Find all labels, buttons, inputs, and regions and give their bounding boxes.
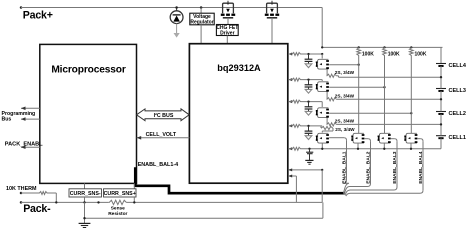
wire tap4 to balance resistor 4 bbox=[320, 126, 322, 128]
capacitor C5 on cell tap 5 with ground bbox=[305, 149, 313, 164]
svg-text:100K: 100K bbox=[362, 52, 374, 58]
svg-text:CURR_SNS-: CURR_SNS- bbox=[70, 191, 101, 197]
svg-text:CELL2: CELL2 bbox=[449, 111, 466, 117]
node stack VC2 bbox=[440, 98, 442, 100]
wire rail to ground bbox=[84, 202, 86, 223]
pin CURR_SNS+ label box bbox=[104, 189, 137, 197]
resistor 2S 3/4W balance resistor 4 bbox=[321, 126, 333, 132]
node therm terminal bbox=[20, 192, 23, 195]
battery CELL4 bbox=[436, 64, 446, 67]
wire tap2 to Q4 top bbox=[321, 80, 323, 81]
wire battery return riser bbox=[322, 202, 324, 218]
wire CELL4-CELL3 bbox=[440, 66, 442, 89]
svg-text:Pack+: Pack+ bbox=[23, 9, 53, 21]
resistor 2S 3/4W balance resistor 1 bbox=[327, 69, 442, 77]
wire Pack- rail with sense resistor bbox=[21, 200, 322, 204]
svg-text:2S, 3/4W: 2S, 3/4W bbox=[335, 119, 355, 124]
resistor 100K R2 bbox=[383, 46, 387, 133]
wire programming bus line 1 bbox=[21, 107, 40, 109]
svg-text:CELL1: CELL1 bbox=[449, 135, 466, 141]
svg-text:ENABL_BAL3: ENABL_BAL3 bbox=[392, 151, 398, 184]
resistor 100K R3 bbox=[409, 46, 413, 133]
node CURR_SNS- junction bbox=[83, 201, 85, 203]
node Pack- terminal bbox=[20, 201, 23, 204]
wire CELL_VOLT bbox=[137, 137, 190, 139]
wire VREG to bq29312A bbox=[200, 25, 202, 44]
capacitor C2 on cell tap 2 with ground bbox=[305, 80, 313, 94]
wire cell tap row 4 from bq29312A with series resistor bbox=[288, 124, 322, 127]
resistor 10K thermistor bbox=[21, 192, 56, 203]
node CURR_SNS+ junction bbox=[133, 201, 135, 203]
wire PACK- sense vertical bbox=[321, 170, 323, 203]
wire CURR_SNS- stub bbox=[84, 183, 86, 188]
wire PACK_ENABL bbox=[21, 146, 40, 148]
node ground return junction bbox=[83, 217, 85, 219]
wire ENABL_BAL2 vertical bbox=[370, 141, 372, 183]
svg-text:100K: 100K bbox=[388, 52, 400, 58]
transistor Q3 cell balance FET 1 bbox=[316, 59, 329, 69]
battery CELL3 bbox=[436, 89, 446, 92]
wire ENABL_BAL1 vertical bbox=[346, 140, 348, 180]
battery CELL2 bbox=[436, 112, 446, 115]
node tap1 junction bbox=[321, 53, 323, 55]
wire ENABL_BAL4 vertical bbox=[422, 141, 424, 190]
wire cell tap row 1 from bq29312A with series resistor bbox=[288, 53, 322, 56]
pin CURR_SNS- label box bbox=[69, 189, 102, 197]
wire battery return line bbox=[85, 217, 323, 219]
ground bbox=[79, 223, 91, 227]
node Q6 source on tap row 5 bbox=[321, 148, 323, 150]
svg-text:Microprocessor: Microprocessor bbox=[51, 64, 126, 75]
node rail drop at 100K bus bbox=[321, 46, 323, 48]
diode D1 circled zener clamp on Pack+ with ground arrow bbox=[170, 8, 183, 38]
transistor Q5 cell balance FET 3 bbox=[316, 108, 329, 118]
wire Q3 gate to 100K pull-up 1 bbox=[329, 64, 359, 66]
resistor 2S 3/4W balance resistor 3 bbox=[327, 118, 442, 126]
label Programming Bus bbox=[2, 111, 36, 123]
svg-text:2S, 3/4W: 2S, 3/4W bbox=[335, 94, 355, 99]
node stack VC1 bbox=[440, 123, 442, 125]
wire CHG FET driver to bq29312A bbox=[226, 36, 228, 44]
wire ENABL_BAL3 vertical bbox=[396, 141, 398, 187]
svg-text:Resistor: Resistor bbox=[108, 211, 127, 217]
bus I2C double arrow bbox=[137, 109, 190, 121]
capacitor C4 on cell tap 4 with ground bbox=[305, 126, 313, 140]
node PACK- sense junction bbox=[321, 169, 323, 171]
svg-text:bq29312A: bq29312A bbox=[217, 63, 261, 73]
wire Q9 gate to ENABL_BAL4 bbox=[418, 138, 421, 140]
pin programming bus arrow 2 bbox=[21, 117, 26, 121]
wire Q4 gate to 100K pull-up 2 bbox=[329, 86, 384, 88]
svg-text:Bus: Bus bbox=[2, 117, 12, 123]
wire Pack+ rail drop bbox=[321, 8, 323, 48]
wire 100K bus bbox=[322, 46, 442, 48]
block Voltage Regulator bbox=[190, 13, 214, 25]
wire CURR_SNS+ stub bbox=[133, 183, 135, 188]
svg-text:Pack-: Pack- bbox=[23, 203, 51, 215]
transistor Q7 auxiliary balance FET bbox=[351, 133, 364, 143]
resistor 100K R1 bbox=[357, 46, 361, 133]
svg-text:ENABL_BAL4: ENABL_BAL4 bbox=[418, 151, 424, 184]
resistor 2S 3/4W balance resistor 2 bbox=[327, 92, 442, 101]
wire Pack+ rail bbox=[21, 7, 322, 9]
wire tap1 to Q3 top bbox=[321, 54, 323, 59]
wire CELL2-CELL1 bbox=[440, 114, 442, 136]
wire Q9 to tap row 5 bbox=[410, 143, 412, 150]
svg-text:I²C BUS: I²C BUS bbox=[154, 113, 174, 119]
wire Q7 to tap row 5 bbox=[357, 143, 359, 150]
wire balance enable fan-out bbox=[343, 180, 423, 196]
transistor Q8 auxiliary balance FET bbox=[378, 133, 391, 143]
svg-text:ENABL_BAL1: ENABL_BAL1 bbox=[342, 151, 348, 184]
transistor Q4 cell balance FET 2 bbox=[316, 82, 329, 92]
svg-text:ENABL_BAL2: ENABL_BAL2 bbox=[366, 151, 372, 184]
svg-text:10K THERM: 10K THERM bbox=[6, 186, 37, 192]
transistor Q2 discharge FET on Pack+ rail bbox=[265, 1, 279, 18]
op-amp U1 Microprocessor block bbox=[40, 44, 137, 183]
wire CELL3-CELL2 bbox=[440, 91, 442, 112]
pin CELL_VOLT arrow bbox=[137, 136, 142, 140]
node rail to voltage regulator bbox=[200, 6, 203, 9]
wire bq pin PACK- sense bbox=[288, 169, 322, 171]
op-amp U2 bq29312A block bbox=[189, 44, 287, 184]
wire Q6 gate to ENABL_BAL1 bbox=[329, 137, 344, 139]
wire cell tap row 5 from bq29312A with series resistor bbox=[288, 147, 441, 150]
capacitor C1 on cell tap 1 with ground bbox=[305, 54, 313, 68]
wire Q7 gate to ENABL_BAL2 bbox=[365, 138, 369, 140]
wire CURR_SNS- to rail bbox=[84, 197, 86, 202]
wire Q1 gate to CHG FET driver bbox=[227, 18, 229, 25]
svg-text:2S, 3/4W: 2S, 3/4W bbox=[335, 70, 355, 75]
wire Q2 gate to bq29312A bbox=[271, 18, 273, 44]
svg-text:CELL4: CELL4 bbox=[449, 63, 467, 69]
svg-text:Sense: Sense bbox=[111, 206, 125, 212]
pin PACK_ENABL arrow bbox=[21, 145, 26, 149]
wire CURR_SNS+ to rail bbox=[133, 197, 135, 202]
wire Q8 to tap row 5 bbox=[383, 143, 385, 150]
transistor Q9 auxiliary balance FET bbox=[404, 133, 417, 143]
svg-text:CELL3: CELL3 bbox=[449, 88, 466, 94]
node Pack+ terminal bbox=[20, 6, 23, 9]
node rail to D1 bbox=[175, 6, 178, 9]
capacitor C3 on cell tap 3 with ground bbox=[305, 102, 313, 116]
svg-text:CURR_SNS+: CURR_SNS+ bbox=[104, 191, 136, 197]
wire Q5 gate to 100K pull-up 3 bbox=[329, 112, 411, 114]
svg-text:100K: 100K bbox=[415, 52, 427, 58]
node stack VC3 bbox=[440, 76, 442, 78]
label Sense Resistor bbox=[108, 206, 127, 217]
transistor Q1 charge FET on Pack+ rail bbox=[221, 1, 235, 18]
svg-text:Regulator: Regulator bbox=[190, 20, 213, 26]
wire Q8 gate to ENABL_BAL3 bbox=[391, 138, 395, 140]
wire bq pin VSS bbox=[288, 175, 296, 177]
wire CELL1 bottom bbox=[440, 138, 442, 149]
svg-text:2S, 3/4W: 2S, 3/4W bbox=[335, 127, 355, 132]
wire rail to VREG bbox=[200, 8, 202, 14]
battery CELL1 bbox=[436, 136, 446, 139]
node therm to Pack- rail bbox=[55, 201, 57, 203]
transistor Q6 cell balance FET 4 bbox=[316, 133, 329, 143]
svg-text:ENABL_BAL1-4: ENABL_BAL1-4 bbox=[138, 162, 178, 168]
pin programming bus arrow 1 bbox=[21, 107, 26, 111]
wire cell tap row 3 from bq29312A with series resistor bbox=[288, 100, 322, 103]
node sense resistor left bbox=[97, 201, 99, 203]
bus ENABL_BAL1-4 thick line bbox=[135, 167, 345, 193]
wire tap3 to Q5 top bbox=[321, 102, 323, 107]
block CHG FET Driver bbox=[216, 25, 238, 37]
wire cell tap row 2 from bq29312A with series resistor bbox=[288, 78, 322, 81]
wire 100K bus to CELL4 bbox=[440, 47, 442, 63]
wire Q6 source to tap row 5 bbox=[321, 143, 323, 149]
wire programming bus line 2 bbox=[21, 118, 40, 120]
